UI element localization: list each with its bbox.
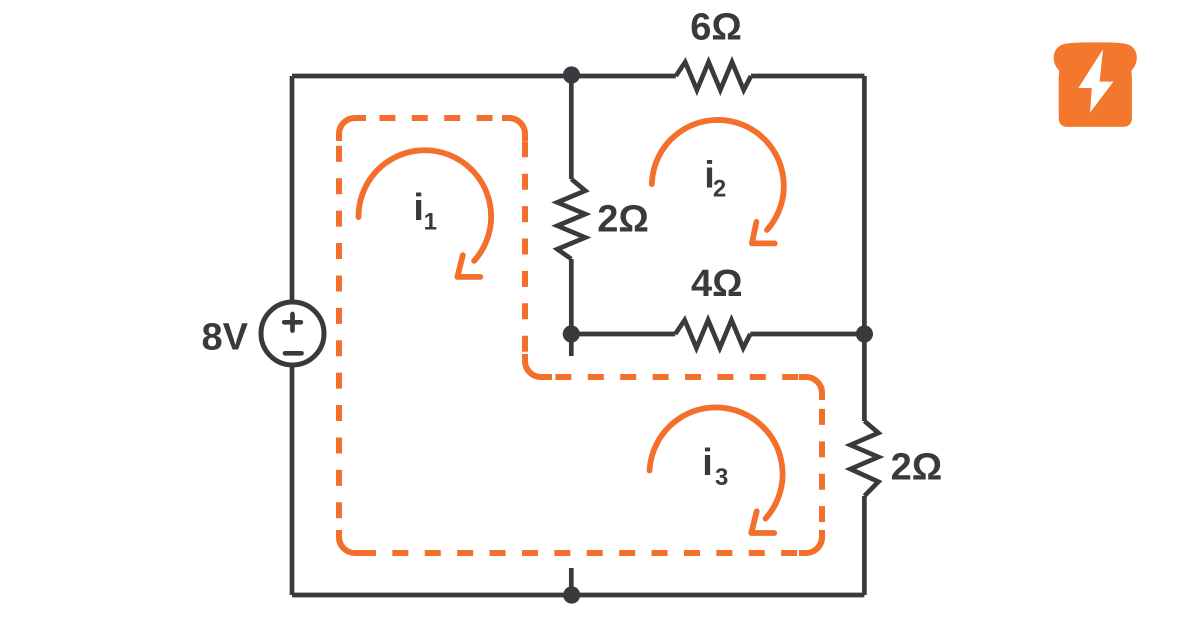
svg-text:8V: 8V xyxy=(202,317,249,359)
svg-text:i: i xyxy=(702,442,713,484)
svg-text:4Ω: 4Ω xyxy=(691,263,743,305)
svg-text:2Ω: 2Ω xyxy=(597,199,649,241)
svg-text:i: i xyxy=(413,187,424,229)
svg-text:1: 1 xyxy=(424,209,437,236)
svg-text:3: 3 xyxy=(715,464,728,491)
svg-text:2: 2 xyxy=(713,175,726,202)
svg-text:2Ω: 2Ω xyxy=(891,446,943,488)
svg-text:6Ω: 6Ω xyxy=(690,6,742,48)
